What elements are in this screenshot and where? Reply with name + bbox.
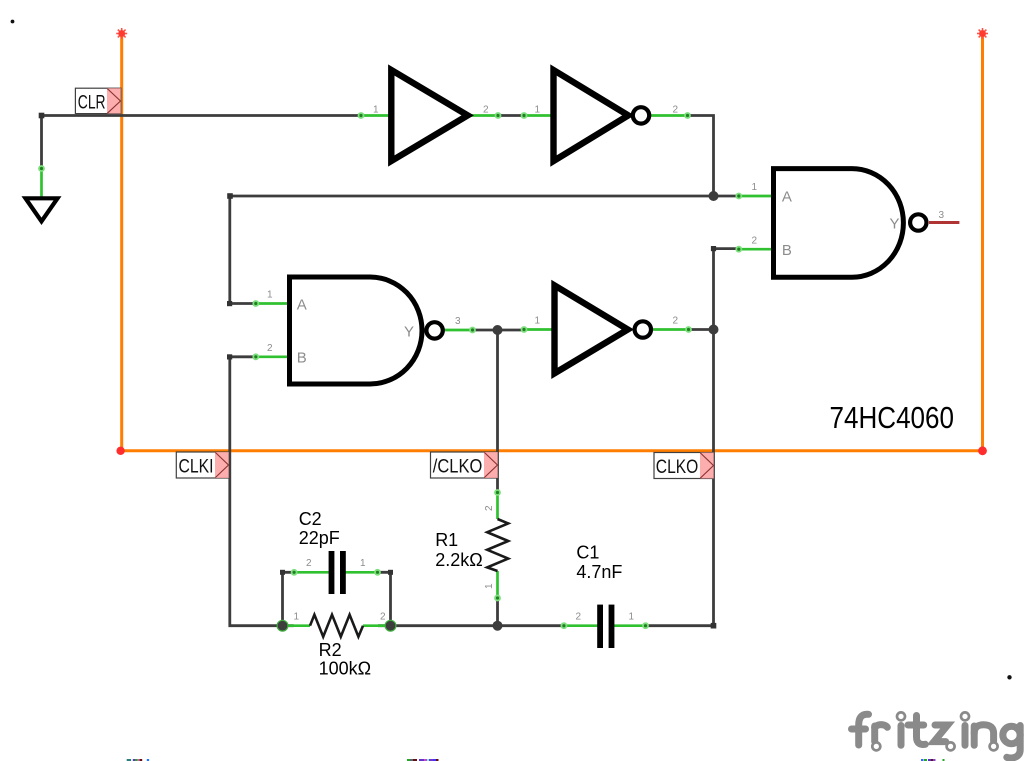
svg-text:CLKO: CLKO (656, 457, 699, 478)
svg-text:2: 2 (483, 105, 489, 116)
svg-text:1: 1 (360, 558, 366, 569)
svg-text:Y: Y (889, 216, 899, 233)
svg-text:CLKI: CLKI (179, 456, 214, 477)
svg-text:2: 2 (380, 612, 386, 623)
svg-text:A: A (297, 296, 307, 313)
svg-text:2: 2 (673, 105, 679, 116)
svg-text:2.2kΩ: 2.2kΩ (435, 550, 482, 570)
svg-text:2: 2 (673, 316, 679, 327)
svg-text:2: 2 (576, 612, 582, 623)
svg-text:2: 2 (752, 236, 758, 247)
svg-text:2: 2 (484, 505, 495, 511)
svg-text:C2: C2 (299, 509, 322, 529)
svg-text:1: 1 (629, 612, 635, 623)
svg-text:R1: R1 (435, 530, 458, 550)
svg-text:C1: C1 (576, 543, 599, 563)
svg-text:2: 2 (306, 558, 312, 569)
svg-text:Y: Y (404, 324, 414, 341)
svg-text:22pF: 22pF (299, 528, 340, 548)
svg-text:100kΩ: 100kΩ (319, 659, 372, 679)
svg-text:1: 1 (484, 583, 495, 589)
svg-text:/CLKO: /CLKO (433, 456, 483, 477)
svg-text:1: 1 (752, 182, 758, 193)
svg-text:3: 3 (939, 210, 945, 221)
svg-text:2: 2 (267, 343, 273, 354)
svg-text:1: 1 (267, 290, 273, 301)
svg-text:1: 1 (373, 105, 379, 116)
svg-text:A: A (782, 189, 792, 206)
svg-text:1: 1 (294, 612, 300, 623)
svg-text:CLR: CLR (78, 92, 106, 113)
svg-text:3: 3 (455, 316, 461, 327)
svg-text:B: B (782, 242, 792, 259)
svg-text:4.7nF: 4.7nF (576, 562, 622, 582)
svg-text:1: 1 (535, 316, 541, 327)
svg-text:R2: R2 (319, 640, 342, 660)
svg-text:74HC4060: 74HC4060 (830, 400, 955, 435)
svg-text:B: B (297, 350, 307, 367)
svg-text:1: 1 (535, 105, 541, 116)
